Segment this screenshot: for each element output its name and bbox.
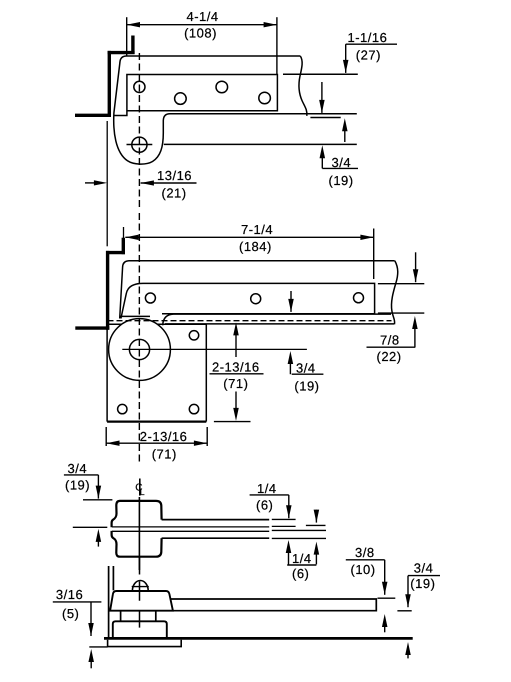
frame face projection line [106, 121, 108, 246]
frame jamb stub middle (thick) [122, 238, 125, 255]
svg-text:3/16: 3/16 [56, 587, 83, 602]
svg-text:(71): (71) [223, 376, 248, 391]
hinge arm outline (top view) [114, 56, 357, 164]
MIDDLE (PLAN) DRAWING [75, 213, 424, 464]
vertical centerline (top view) [138, 53, 140, 209]
dim 3/4 down arrowhead (top view) [319, 100, 325, 113]
arm hole B1 [145, 293, 155, 303]
dim 3/4 bottom-right up arrow [405, 642, 411, 655]
svg-text:4-1/4: 4-1/4 [187, 9, 219, 24]
floor plate top edge segments [107, 323, 206, 325]
svg-text:7/8: 7/8 [380, 333, 400, 348]
plate hole top right [189, 331, 198, 340]
dim 3/4 bottom-left up arrow [96, 529, 102, 542]
dim 3/4 bottom-left underline [64, 474, 99, 476]
pivot axis line to door edge [164, 143, 357, 145]
svg-text:2-13/16: 2-13/16 [212, 359, 260, 374]
floor plate right edge [205, 324, 207, 421]
arm top edge (middle drawing) [120, 261, 395, 319]
dim 1/4 upper underline [250, 494, 289, 496]
door jamb line outer (bottom view) [108, 566, 110, 638]
svg-text:(19): (19) [410, 576, 435, 591]
dim 7/8 leader underline [367, 346, 416, 348]
pivot hole (top view) [132, 137, 147, 152]
pivot crosshair horizontal [127, 144, 153, 146]
svg-text:1/4: 1/4 [292, 551, 312, 566]
svg-text:3/4: 3/4 [68, 461, 88, 476]
dim 7-1/4 right arrowhead [360, 235, 373, 240]
blade end reference line A [272, 518, 296, 520]
dim 7/8 down arrow tail [415, 252, 417, 282]
floor plate bottom edge [107, 421, 206, 423]
dim 3/4 up arrowhead (top view) [320, 145, 326, 158]
dim 2-13/16 bottom right arrowhead [194, 441, 207, 446]
dim 1-1/16 up arrow tail [344, 125, 346, 142]
svg-text:(27): (27) [356, 47, 381, 62]
svg-text:(184): (184) [239, 239, 272, 254]
svg-text:1/4: 1/4 [257, 481, 277, 496]
svg-text:(22): (22) [377, 349, 402, 364]
dim 13/16 leader line [141, 182, 197, 184]
pivot boss circle [109, 319, 171, 381]
arm bottom edge segment (middle) [121, 315, 151, 317]
svg-text:(6): (6) [292, 566, 309, 581]
frame jamb vertical (thick) [108, 51, 111, 117]
dim 7/8 up arrowhead [412, 316, 418, 329]
dim 2-13/16 vertical down arrowhead [233, 408, 239, 421]
svg-text:(19): (19) [294, 379, 319, 394]
dim 1/4 upper down arrow [288, 495, 290, 518]
floor line (thick) [104, 637, 413, 640]
pivot pin dome chord [132, 586, 149, 588]
arm recess plate (middle drawing) [121, 283, 375, 318]
vertical centerline (middle) [138, 213, 140, 464]
dim 3/4 leader underline (top view) [322, 167, 358, 169]
svg-text:3/8: 3/8 [355, 545, 375, 560]
dim 1/4 lower up arrow [314, 542, 320, 555]
bottom pivot cap [110, 591, 173, 611]
svg-text:2-13/16: 2-13/16 [140, 429, 188, 444]
short reference line under arm [310, 117, 340, 119]
dim 3/4 middle down arrow tail [290, 291, 292, 312]
pivot stem right [155, 611, 157, 621]
dim 13/16 left arrowhead [141, 180, 154, 185]
svg-text:(71): (71) [152, 447, 177, 462]
dim 2-13/16 bottom left extension [105, 427, 107, 446]
frame jamb horizontal (thick) [108, 51, 135, 54]
arm mounting recess plate [114, 75, 277, 116]
plate hole bottom right [189, 404, 198, 413]
arm strip bottom edge [162, 537, 270, 539]
arm hole B3 [354, 293, 364, 303]
blade end reference line C [272, 529, 326, 531]
pivot hole (middle) [129, 339, 149, 359]
dim 4-1/4 left extension line [126, 17, 128, 56]
dim 2-13/16 bottom dimension line [106, 442, 207, 444]
dim 3/4 bottom-left down arrow [97, 475, 99, 499]
dim 7-1/4 left arrowhead [125, 235, 138, 240]
pivot base [113, 621, 167, 637]
svg-text:(5): (5) [62, 606, 79, 621]
svg-text:3/4: 3/4 [296, 360, 316, 375]
blade lower line [112, 530, 269, 532]
dim 1-1/16 down arrowhead [343, 60, 349, 73]
svg-text:13/16: 13/16 [157, 168, 192, 183]
dim 1/4 lower underline [287, 564, 316, 566]
dim 3/8 down arrow [384, 560, 386, 595]
dim 4-1/4 dimension line [127, 24, 277, 26]
dim 3/16 down arrow [90, 602, 92, 636]
dim 1-1/16 arrow tail [345, 44, 347, 73]
hidden edge dashed line [108, 320, 392, 322]
dim 3/16 up arrow [88, 649, 94, 662]
dim 2-13/16 vertical up arrowhead [233, 322, 239, 335]
screw hole A4 [259, 92, 271, 104]
frame jamb horizontal middle (thick) [106, 251, 125, 254]
arm hole B2 [251, 294, 261, 304]
slot reference line left [73, 526, 108, 528]
blade end reference line D [272, 537, 326, 539]
rail top reference line [378, 597, 396, 599]
dim 2-13/16 bottom right extension [206, 427, 208, 446]
door bottom rail bar [170, 599, 376, 611]
screw hole A1 [134, 81, 145, 92]
svg-text:(10): (10) [351, 562, 376, 577]
frame jamb stub (thick) [131, 36, 134, 55]
reference line lower right of break [378, 312, 424, 314]
screw hole A2 [175, 93, 187, 105]
dim 13/16 right-pointing arrow at frame face [85, 182, 99, 184]
dim 3/4 middle down arrowhead [288, 299, 294, 312]
door jamb line inner (bottom view) [112, 566, 114, 590]
dim 4-1/4 right arrowhead [264, 22, 277, 27]
dim 2-13/16 bottom left arrowhead [106, 441, 119, 446]
shoe bottom edge [165, 323, 394, 325]
svg-text:1-1/16: 1-1/16 [348, 30, 388, 45]
dim 2-13/16 vertical upper tail [235, 329, 237, 357]
pivot stem left [120, 611, 122, 621]
floor plate left edge [106, 324, 108, 421]
plate hole bottom left [118, 404, 127, 413]
dim 3/4 middle up arrowhead [288, 351, 294, 364]
frame jamb vertical middle (thick) [106, 251, 109, 330]
break line (wavy) middle [391, 261, 397, 324]
dim 7/8 down arrowhead [413, 269, 419, 282]
pivot pin dome [132, 581, 148, 591]
dim 7-1/4 right extension line [373, 229, 375, 280]
dim 3/4 up arrow tail [321, 152, 323, 168]
clamp top reference line [83, 499, 112, 501]
plate bottom extension line [214, 421, 251, 423]
svg-text:7-1/4: 7-1/4 [241, 222, 273, 237]
frame wall bottom middle (thick) [75, 326, 109, 329]
bottom centerline dashed [139, 558, 141, 628]
dim 3/4 bottom-right down arrow [407, 576, 409, 608]
svg-text:(108): (108) [184, 26, 217, 41]
centerline symbol [139, 479, 141, 496]
dim 7/8 up arrow tail [414, 323, 416, 347]
dim 3/4 down arrow tail (top view) [321, 82, 323, 113]
dim 1-1/16 up arrowhead below [342, 118, 348, 131]
svg-text:L: L [140, 487, 145, 497]
svg-text:(19): (19) [329, 173, 354, 188]
dim 1/4 upper up arrowhead [286, 540, 292, 553]
reference line upper right of break [378, 283, 424, 285]
reference line E [306, 524, 326, 526]
dim 3/4 middle leader underline [292, 373, 324, 375]
dim 2-13/16 vertical underline [210, 373, 264, 375]
svg-text:(21): (21) [162, 186, 187, 201]
svg-text:3/4: 3/4 [332, 155, 352, 170]
svg-text:(19): (19) [65, 478, 90, 493]
dim 1-1/16 leader underline [346, 43, 397, 45]
pivot horizontal centerline [122, 348, 307, 350]
blade end reference line B [272, 525, 296, 527]
dim 3/4 middle up arrow tail [289, 358, 291, 374]
arm strip top edge [162, 519, 270, 521]
dim 7-1/4 dimension line [125, 236, 373, 238]
clamp centerline [138, 497, 140, 570]
break line (wavy) top view [299, 56, 307, 116]
dim 2-13/16 vertical lower tail [235, 392, 237, 414]
top pivot clamp body [112, 501, 162, 557]
rail bottom reference line [397, 610, 411, 612]
frame wall bottom (thick) [75, 114, 111, 117]
blade upper line [112, 526, 269, 528]
shoe top edge [163, 314, 391, 325]
screw hole A3 [216, 81, 228, 93]
svg-text:(6): (6) [256, 498, 273, 513]
dim 3/8 up arrow [382, 614, 388, 627]
threshold plate extension line [89, 646, 107, 648]
dim 4-1/4 left arrowhead [127, 22, 140, 27]
frame stub extension line (middle) [123, 227, 125, 238]
dim 1/4 lower down arrow [315, 510, 317, 523]
svg-text:3/4: 3/4 [414, 561, 434, 576]
threshold plate [108, 640, 182, 647]
dim 4-1/4 right extension line [276, 17, 278, 74]
door top surface line right of break [283, 73, 358, 75]
